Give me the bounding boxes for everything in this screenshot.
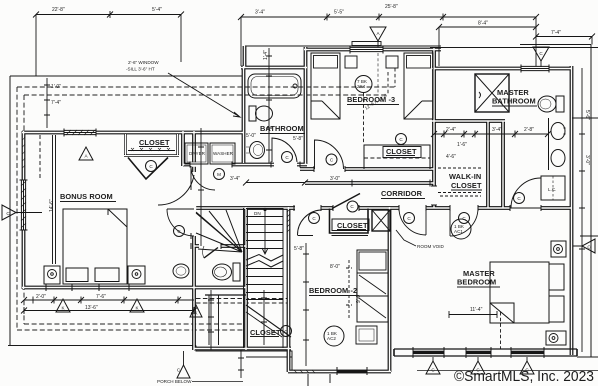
wall bed2 bottom bbox=[288, 370, 391, 374]
svg-text:22'-8": 22'-8" bbox=[52, 7, 65, 13]
dashed overhang bottom b bbox=[24, 323, 247, 325]
triangle A bonus window bbox=[79, 147, 93, 160]
vanity line bbox=[548, 118, 550, 170]
triangle C master right bbox=[582, 239, 595, 253]
winder fan bbox=[196, 210, 242, 252]
wall laundry bath bottom bbox=[183, 163, 307, 167]
wall bathroom top bbox=[241, 66, 307, 70]
wall corridor bottom master top bbox=[194, 206, 572, 210]
svg-text:CLOSET: CLOSET bbox=[337, 221, 368, 230]
dim bedroom2 left ladder bbox=[303, 243, 309, 366]
bed2 bbox=[357, 250, 388, 322]
bonus pillows bbox=[66, 268, 88, 282]
dashed center bedroom3 bbox=[363, 93, 365, 144]
master bed fold bbox=[490, 303, 514, 323]
svg-text:CLOSET: CLOSET bbox=[386, 147, 417, 156]
opening closet bed2 door bbox=[333, 206, 359, 210]
svg-text:5'-6": 5'-6" bbox=[584, 110, 590, 120]
opening corridor west door bbox=[295, 206, 321, 210]
closet rod hooks bbox=[128, 150, 175, 152]
lc closet bbox=[541, 176, 565, 200]
svg-text:DN: DN bbox=[254, 211, 261, 216]
window ticks master bottom bbox=[413, 347, 544, 358]
svg-text:CLOSET: CLOSET bbox=[451, 181, 482, 190]
wall bottom stairs porch bbox=[194, 347, 291, 351]
window bedroom3 top bbox=[350, 42, 383, 54]
svg-text:M: M bbox=[217, 172, 221, 177]
toilet bathroom bbox=[249, 106, 256, 121]
svg-text:4'-6": 4'-6" bbox=[446, 154, 456, 160]
dim top-right sub line bbox=[439, 27, 536, 66]
wall hall divider vertical bbox=[192, 131, 196, 350]
hallbath door leaf bbox=[204, 248, 218, 259]
vertical ref line laundry bbox=[198, 128, 204, 246]
wall hatch marks bbox=[23, 137, 316, 373]
opening bathroom door bbox=[274, 162, 297, 166]
svg-text:7'-4": 7'-4" bbox=[51, 100, 61, 106]
svg-text:3'-0": 3'-0" bbox=[330, 176, 340, 182]
sink hallbath bbox=[173, 264, 189, 278]
fan circle bed2 bbox=[324, 326, 344, 346]
outline bottom left bbox=[8, 345, 196, 347]
outline left wing top bbox=[10, 75, 243, 77]
wall bonus top bbox=[22, 131, 243, 135]
fan circle master bbox=[451, 219, 471, 239]
nightstand right bbox=[386, 56, 398, 68]
triangle C master bottom 1 bbox=[426, 361, 440, 374]
shower bbox=[475, 74, 509, 112]
closet box top-left bbox=[124, 134, 179, 156]
svg-text:2'-4": 2'-4" bbox=[446, 127, 456, 133]
dashed overhang left a bbox=[16, 87, 18, 330]
right outline vertical bbox=[590, 45, 592, 358]
eave line right top bbox=[430, 47, 598, 49]
svg-text:1'-6": 1'-6" bbox=[457, 142, 467, 148]
window master bottom 3 bbox=[511, 351, 544, 354]
window bed2 bottom bbox=[337, 370, 367, 373]
svg-text:PORCH BELOW: PORCH BELOW bbox=[157, 379, 192, 384]
svg-text:3'-4": 3'-4" bbox=[255, 10, 265, 16]
svg-text:1'-0": 1'-0" bbox=[51, 84, 61, 90]
wall bonus left bbox=[22, 131, 26, 289]
wall bedroom3 right masterbath left bbox=[432, 48, 436, 208]
window master bath top bbox=[521, 65, 549, 73]
svg-text:©SmartMLS, Inc. 2023: ©SmartMLS, Inc. 2023 bbox=[454, 369, 594, 385]
wall bedroom3 top bbox=[304, 48, 441, 52]
dim bonus bottom line1 bbox=[24, 297, 194, 304]
svg-text:14'-6": 14'-6" bbox=[49, 199, 55, 212]
nightstand bed2 bbox=[356, 326, 377, 344]
wall master bath top bbox=[432, 67, 572, 71]
wall closet left bbox=[181, 131, 185, 166]
svg-text:2'-0": 2'-0" bbox=[36, 294, 46, 300]
svg-text:3'-0": 3'-0" bbox=[584, 155, 590, 165]
wall masterbath interior bbox=[432, 119, 505, 123]
svg-text:CLOSET: CLOSET bbox=[139, 138, 170, 147]
wall bonus bottom bbox=[22, 286, 246, 290]
wall bed2 right master left bbox=[388, 207, 392, 372]
toilet hallbath bbox=[233, 263, 240, 281]
opening bonus french doors bbox=[192, 172, 196, 236]
wall chase stub bbox=[243, 46, 247, 68]
opening master door1 bbox=[399, 206, 426, 210]
dashed hall lines bbox=[196, 298, 289, 300]
dim master 11-4 bbox=[449, 311, 497, 318]
outline porch step bbox=[196, 346, 292, 372]
window master bottom 1 bbox=[413, 351, 444, 354]
svg-text:BATHROOM: BATHROOM bbox=[492, 97, 536, 106]
dim masterbath line bbox=[434, 131, 548, 138]
master door2 arc bbox=[450, 208, 478, 236]
wall stairs left bbox=[244, 207, 248, 350]
master pillows bbox=[549, 264, 564, 290]
wall master bottom band bbox=[394, 349, 577, 356]
svg-text:CORRIDOR: CORRIDOR bbox=[381, 189, 423, 198]
svg-text:3'-4": 3'-4" bbox=[230, 176, 240, 182]
svg-text:BEDROOM -3: BEDROOM -3 bbox=[347, 95, 395, 104]
triangle A top bbox=[370, 27, 386, 41]
dashed overhang bottom a bbox=[17, 329, 247, 331]
dim landing line bbox=[246, 182, 305, 184]
svg-text:13'-6": 13'-6" bbox=[85, 305, 98, 311]
sink master 2 bbox=[551, 150, 565, 167]
extension line right bbox=[572, 117, 598, 119]
wall right outer bbox=[570, 66, 574, 355]
svg-text:WASHER: WASHER bbox=[213, 151, 234, 156]
bonus door arc from hall bbox=[158, 175, 194, 205]
bonus nightstand right bbox=[128, 266, 145, 284]
dim bed2 vertical bbox=[346, 260, 352, 320]
closet angled front bbox=[128, 158, 168, 180]
window ticks bonus bottom bbox=[46, 284, 129, 291]
svg-text:5'-0": 5'-0" bbox=[246, 133, 256, 139]
svg-text:-SILL 3'-6" HT: -SILL 3'-6" HT bbox=[126, 67, 155, 72]
door jamb ticks bbox=[190, 162, 541, 250]
svg-text:ROOM VOID: ROOM VOID bbox=[417, 244, 444, 249]
porch verticals bbox=[209, 295, 219, 345]
triangle K bonus1 bbox=[56, 299, 70, 312]
speaker master top bbox=[551, 241, 566, 257]
svg-text:2X4: 2X4 bbox=[357, 84, 366, 89]
wall bath bed3 divider bbox=[304, 47, 308, 164]
opening master door2 bbox=[450, 206, 478, 210]
dim right ladder bbox=[579, 68, 585, 352]
svg-text:CLOSET: CLOSET bbox=[250, 328, 281, 337]
porch lower edge bbox=[246, 356, 292, 358]
porch step line bbox=[205, 294, 246, 296]
corridor west door arc bbox=[297, 210, 320, 236]
svg-text:25'-8": 25'-8" bbox=[385, 4, 398, 10]
svg-text:8'-4": 8'-4" bbox=[478, 21, 488, 27]
stair treads bbox=[246, 209, 283, 300]
closet bed2 box bbox=[330, 209, 369, 234]
dim drop below bed2 wall bbox=[308, 374, 330, 386]
svg-text:BATHROOM: BATHROOM bbox=[260, 124, 304, 133]
opening bedroom3 door bbox=[314, 167, 345, 171]
stair break chevrons bbox=[246, 255, 283, 262]
triangle C left bbox=[2, 205, 16, 220]
bottom extension line bbox=[417, 370, 598, 372]
window master bottom 2 bbox=[466, 351, 491, 354]
dim top-left line bbox=[36, 11, 181, 76]
wall corridor top bbox=[305, 181, 434, 185]
dim bonus bottom line2 bbox=[24, 307, 194, 314]
stair arrow bbox=[263, 208, 266, 211]
chase xbox bed2 bbox=[372, 210, 390, 231]
dashed overhang left b bbox=[23, 95, 25, 324]
svg-text:5'-4": 5'-4" bbox=[152, 7, 162, 13]
eave line right upper second bbox=[520, 44, 591, 46]
wall walkin right bbox=[486, 121, 490, 208]
callout leader bbox=[168, 73, 240, 117]
laundry door arc bbox=[191, 166, 215, 190]
eave line center top bbox=[245, 45, 441, 47]
dim top-center line bbox=[241, 14, 536, 67]
svg-text:AC1: AC1 bbox=[454, 229, 463, 234]
sink master 1 bbox=[551, 123, 565, 140]
triangle porch bbox=[177, 365, 190, 378]
kneewall bonus room bbox=[40, 135, 56, 264]
wall bathroom left bbox=[242, 66, 246, 163]
master door1 arc bbox=[399, 208, 426, 235]
dim stairs vertical bbox=[261, 290, 267, 345]
dashed overhang top a bbox=[17, 86, 395, 88]
wall stairs right bed2 left bbox=[287, 207, 291, 372]
toilet master bbox=[556, 96, 564, 112]
dryer box bbox=[185, 143, 208, 164]
window sill rect above bbox=[352, 42, 381, 46]
wall hallbath top bbox=[194, 244, 246, 248]
sink bathroom bbox=[250, 142, 265, 159]
dashed overhang top b bbox=[24, 94, 388, 96]
window bonus top bbox=[64, 129, 96, 137]
opening laundry door bbox=[190, 162, 232, 166]
dim bathroom vertical bbox=[266, 48, 272, 163]
triangle porch left bbox=[190, 305, 202, 317]
svg-text:L.C.: L.C. bbox=[548, 187, 556, 192]
bonus bed bbox=[63, 209, 127, 284]
svg-text:11'-4": 11'-4" bbox=[470, 307, 483, 313]
svg-text:BEDROOM -2: BEDROOM -2 bbox=[309, 286, 357, 295]
triangle C master bottom 3 bbox=[520, 361, 534, 374]
dim below stairs bbox=[238, 350, 244, 378]
closet bed2 door leaf bbox=[332, 194, 360, 209]
closet bed3 box bbox=[364, 145, 430, 169]
svg-text:AC2: AC2 bbox=[327, 336, 336, 341]
bonus nightstand left bbox=[44, 266, 60, 284]
svg-text:5'-5": 5'-5" bbox=[334, 10, 344, 16]
svg-text:BEDROOM: BEDROOM bbox=[457, 278, 496, 287]
white cores of double walls bbox=[22, 46, 572, 372]
opening masterbath door bbox=[510, 206, 541, 210]
bonus french door arc lower bbox=[167, 209, 194, 236]
tick marks corridor bbox=[352, 180, 430, 187]
stair rails bbox=[244, 208, 284, 348]
bed3 left bbox=[311, 53, 340, 119]
washer box bbox=[210, 143, 235, 164]
dashed riser at window callout bbox=[394, 68, 396, 87]
masterbath door arc bbox=[511, 178, 541, 208]
svg-text:5'-8": 5'-8" bbox=[294, 246, 304, 252]
svg-text:2'-8": 2'-8" bbox=[524, 127, 534, 133]
dashed bed centerline master bbox=[500, 312, 502, 349]
dim top-right line bbox=[536, 37, 592, 45]
svg-text:DRYER: DRYER bbox=[189, 151, 206, 156]
opening walkin door bbox=[432, 186, 436, 205]
wall masterbath vanity left bbox=[501, 121, 505, 208]
svg-text:1'-4": 1'-4" bbox=[263, 50, 269, 60]
speaker master bottom bbox=[546, 331, 566, 345]
wall bed3 bottom bbox=[300, 167, 434, 171]
window bonus left bbox=[20, 180, 28, 230]
master bed bbox=[490, 262, 549, 323]
nightstand left bbox=[345, 56, 357, 68]
svg-text:7'-4": 7'-4" bbox=[551, 30, 561, 36]
svg-text:8'-0": 8'-0" bbox=[330, 264, 340, 270]
svg-text:WALK-IN: WALK-IN bbox=[449, 172, 481, 181]
bottom right outline bbox=[577, 356, 598, 358]
svg-text:5'-8": 5'-8" bbox=[293, 136, 303, 142]
triangle K bonus2 bbox=[130, 299, 144, 312]
svg-text:BONUS ROOM: BONUS ROOM bbox=[60, 192, 113, 201]
bathtub bbox=[248, 74, 301, 98]
svg-text:7'-6": 7'-6" bbox=[96, 294, 106, 300]
dim porch vertical bbox=[208, 290, 214, 350]
fan circle bedroom3 bbox=[355, 76, 372, 93]
triangle C top right bbox=[533, 47, 549, 61]
svg-text:3'-4": 3'-4" bbox=[492, 127, 502, 133]
svg-text:2'-6" WINDOW: 2'-6" WINDOW bbox=[128, 60, 159, 65]
bedroom3 door arc bbox=[315, 140, 344, 169]
shelf dashes walkin bbox=[438, 167, 482, 169]
understair closet diagonal bbox=[246, 305, 291, 337]
bed3 right bbox=[404, 53, 433, 119]
triangle C master bottom 2 bbox=[471, 361, 485, 374]
bathroom door arc bbox=[272, 138, 297, 162]
opening hallbath door bbox=[199, 244, 221, 248]
dim left ladder bbox=[44, 78, 50, 128]
dashed riser second bbox=[387, 72, 389, 95]
outline left vertical bbox=[9, 76, 11, 345]
